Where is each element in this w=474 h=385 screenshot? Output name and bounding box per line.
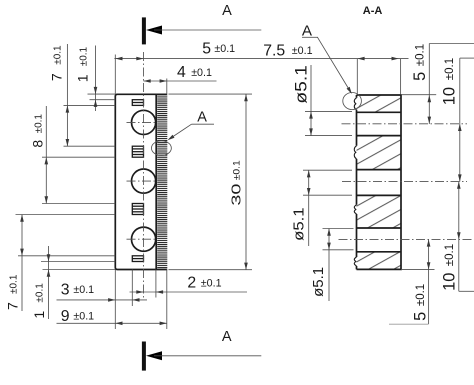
extension line slot2 top bbox=[64, 145, 116, 147]
svg-text:8: 8 bbox=[29, 140, 45, 148]
dimension 5 +-0.1 and 7.5 +-0.1 shared line bbox=[114, 57, 408, 61]
dimension text 30 +-0.1 (rotated) bbox=[229, 160, 244, 205]
svg-text:7.5: 7.5 bbox=[263, 43, 285, 60]
section detail circle at top-left corner bbox=[343, 93, 362, 110]
svg-text:A: A bbox=[222, 329, 232, 345]
extension line slot4 top bbox=[18, 255, 115, 257]
detail circle on knurl bbox=[151, 141, 171, 156]
extension line part top for 30 dim bbox=[169, 93, 253, 95]
dimension text 2 +-0.1 bbox=[187, 275, 221, 292]
extension line knurl right edge down bbox=[166, 270, 168, 330]
svg-text:3: 3 bbox=[61, 281, 70, 298]
dimension text 7 +-0.1 bottom-left (rotated) bbox=[4, 274, 20, 310]
svg-text:9: 9 bbox=[61, 308, 70, 325]
left view: body right edge line bbox=[155, 94, 157, 269]
dimension 4 +-0.1 line bbox=[144, 79, 217, 83]
svg-text:±0.1: ±0.1 bbox=[415, 44, 427, 66]
section internal edge line 6 bbox=[357, 251, 402, 253]
svg-text:ø5.1: ø5.1 bbox=[310, 267, 327, 297]
section internal edge line 5 bbox=[357, 227, 402, 229]
svg-text:ø5.1: ø5.1 bbox=[292, 65, 310, 104]
slot 4 (1mm groove) bbox=[132, 256, 143, 262]
hole 2 circle bbox=[132, 169, 156, 193]
svg-text:5: 5 bbox=[411, 72, 429, 81]
svg-text:±0.1: ±0.1 bbox=[201, 277, 222, 289]
svg-text:±0.1: ±0.1 bbox=[231, 160, 242, 180]
dimension 7 +-0.1 top-left vertical bbox=[66, 44, 70, 146]
dimension 8 +-0.1 left vertical bbox=[45, 106, 49, 204]
extension line slot4 bottom bbox=[41, 261, 115, 263]
hole 2 horizontal centerline bbox=[127, 180, 157, 182]
section hatched band 3 bbox=[357, 195, 402, 228]
svg-text:A: A bbox=[302, 22, 313, 39]
dimension 3 +-0.1 line bbox=[57, 298, 148, 302]
section hole 1 centerline bbox=[342, 123, 468, 125]
extension lines for 7.5 dim bbox=[357, 59, 400, 95]
slot 1 (1mm groove) bbox=[132, 100, 143, 106]
phi5.1 hole2 extension lines bbox=[303, 170, 352, 195]
dimension text 5 +-0.1 bbox=[202, 41, 235, 58]
svg-text:±0.1: ±0.1 bbox=[292, 45, 313, 57]
extension line part bottom for 30 dim bbox=[169, 269, 253, 271]
phi5.1 hole2 label (rotated) bbox=[291, 207, 307, 241]
section hole 3 centerline bbox=[339, 238, 474, 240]
detail letter A on left view bbox=[197, 109, 207, 125]
section cut mark top: thick bar bbox=[142, 17, 146, 44]
svg-text:±0.1: ±0.1 bbox=[33, 114, 44, 134]
section internal edge line 1 bbox=[357, 111, 402, 113]
svg-text:ø5.1: ø5.1 bbox=[291, 207, 307, 241]
slot 2 (2mm groove) bbox=[132, 146, 143, 157]
phi5.1 hole2 dimension line bbox=[307, 170, 311, 246]
dimension text 1 +-0.1 top-left (rotated) bbox=[75, 46, 91, 82]
phi5.1 hole1 dimension line bbox=[309, 65, 313, 136]
hole 1 horizontal centerline bbox=[127, 121, 157, 123]
phi5.1 hole1 label (rotated) bbox=[292, 65, 310, 104]
extension line slot1 top bbox=[90, 99, 116, 101]
section letter A bottom bbox=[222, 329, 232, 345]
svg-text:±0.1: ±0.1 bbox=[53, 45, 64, 65]
svg-text:±0.1: ±0.1 bbox=[73, 284, 94, 296]
svg-text:5: 5 bbox=[412, 312, 430, 321]
dimension 9 +-0.1 line bbox=[57, 322, 167, 326]
section detail leader A bbox=[302, 37, 353, 95]
section hole 2 centerline bbox=[342, 181, 467, 183]
dimension 5 +-0.1 right-bottom vertical bbox=[389, 239, 430, 324]
detail leader A on left view bbox=[167, 124, 214, 141]
svg-text:2: 2 bbox=[187, 275, 196, 292]
section internal edge line 3 bbox=[357, 169, 402, 171]
broken-edge squiggle band 2 bbox=[354, 146, 356, 159]
svg-text:±0.1: ±0.1 bbox=[214, 43, 235, 55]
svg-text:±0.1: ±0.1 bbox=[415, 284, 427, 306]
svg-text:±0.1: ±0.1 bbox=[8, 274, 19, 294]
dimension text 3 +-0.1 bbox=[61, 281, 94, 298]
section hatched band 2 bbox=[357, 136, 402, 170]
hole 1 circle bbox=[132, 110, 156, 134]
dimension text 4 +-0.1 bbox=[177, 64, 212, 81]
extension line slot2 bottom bbox=[42, 156, 115, 158]
section hatched band 4 bbox=[357, 252, 402, 270]
extension line left edge up bbox=[114, 55, 116, 95]
broken-edge squiggle in detail circle bbox=[354, 98, 356, 110]
dimension text 1 +-0.1 bottom-left (rotated) bbox=[31, 283, 47, 319]
broken-edge squiggle band 4 bbox=[354, 257, 356, 266]
svg-text:A-A: A-A bbox=[363, 5, 383, 17]
dimension 30 +-0.1 vertical bbox=[244, 94, 248, 270]
section bottom edge extension right bbox=[401, 269, 435, 271]
svg-text:A: A bbox=[197, 109, 207, 125]
svg-text:5: 5 bbox=[202, 41, 211, 58]
svg-text:±0.1: ±0.1 bbox=[444, 58, 456, 80]
dimension text 9 +-0.1 bbox=[61, 308, 94, 325]
svg-text:A: A bbox=[222, 3, 232, 19]
svg-text:7: 7 bbox=[49, 73, 65, 81]
svg-text:±0.1: ±0.1 bbox=[79, 46, 90, 66]
svg-text:±0.1: ±0.1 bbox=[73, 311, 94, 323]
section cut mark top: arrow and tail bbox=[146, 26, 261, 35]
extension line slot1 bottom bbox=[64, 104, 116, 106]
dimension text 5 +-0.1 right-bottom (rotated) bbox=[412, 284, 430, 321]
phi5.1 hole3 extension lines bbox=[323, 229, 354, 250]
section hatched band 1 bbox=[357, 95, 402, 112]
phi5.1 hole3 dimension line bbox=[327, 229, 331, 302]
section cut mark bottom: thick bar bbox=[142, 342, 146, 371]
svg-text:30: 30 bbox=[229, 184, 244, 206]
section detail letter A bbox=[302, 22, 313, 39]
section top edge extension right bbox=[401, 94, 436, 96]
section outline rectangle bbox=[357, 95, 402, 269]
extension line left edge down bbox=[114, 270, 116, 330]
svg-text:10: 10 bbox=[441, 87, 459, 105]
extension line slot3 top bbox=[42, 203, 115, 205]
extension line knurl left edge down bbox=[155, 270, 157, 298]
dimension text 10 +-0.1 right-top (rotated) bbox=[441, 58, 459, 105]
dimension 1 +-0.1 top-left vertical bbox=[88, 46, 116, 112]
svg-text:±0.1: ±0.1 bbox=[191, 67, 212, 79]
dimension text 10 +-0.1 right-bottom (rotated) bbox=[441, 244, 459, 291]
dimension text 7.5 +-0.1 bbox=[263, 43, 312, 60]
broken-edge squiggle band 3 bbox=[354, 205, 356, 214]
dimension text 8 +-0.1 (rotated) bbox=[29, 114, 45, 148]
dimension 1 +-0.1 bottom-left vertical bbox=[43, 246, 116, 319]
dimension text 7 +-0.1 top-left (rotated) bbox=[49, 45, 65, 81]
svg-text:±0.1: ±0.1 bbox=[35, 283, 46, 303]
svg-text:7: 7 bbox=[4, 302, 20, 310]
slot 3 (2mm groove) bbox=[132, 204, 143, 215]
phi5.1 hole3 label (rotated) bbox=[310, 267, 327, 297]
section letter A top bbox=[222, 3, 232, 19]
extension line slot3 bottom bbox=[16, 214, 116, 216]
dimension 2 +-0.1 line bbox=[130, 290, 248, 294]
dimension 5 +-0.1 right-top vertical bbox=[428, 44, 474, 125]
dimension 10 +-0.1 right-top vertical bbox=[458, 58, 474, 182]
left view: knurled (serrated) edge strip bbox=[157, 95, 167, 269]
hole 3 circle bbox=[132, 227, 156, 251]
svg-text:10: 10 bbox=[441, 273, 459, 291]
dimension 7 +-0.1 bottom-left vertical bbox=[20, 215, 24, 312]
extension line knurl right edge up bbox=[166, 79, 168, 95]
svg-text:4: 4 bbox=[177, 64, 186, 81]
dimension text 5 +-0.1 right-top (rotated) bbox=[411, 44, 429, 81]
section internal edge line 4 bbox=[357, 194, 402, 196]
section internal edge line 2 bbox=[357, 135, 402, 137]
left view: plate body outline bbox=[115, 94, 167, 269]
dimension 10 +-0.1 right-bottom vertical bbox=[457, 182, 474, 292]
svg-text:1: 1 bbox=[75, 74, 91, 82]
extension line slot left edge down bbox=[131, 270, 133, 307]
svg-text:1: 1 bbox=[31, 311, 47, 319]
section cut mark bottom: arrow and tail bbox=[146, 351, 261, 360]
vertical centerline through slots and holes bbox=[143, 52, 145, 298]
hole 3 horizontal centerline bbox=[127, 238, 157, 240]
section title A-A bbox=[363, 5, 383, 17]
phi5.1 hole1 extension lines bbox=[305, 111, 352, 135]
svg-text:±0.1: ±0.1 bbox=[444, 244, 456, 266]
